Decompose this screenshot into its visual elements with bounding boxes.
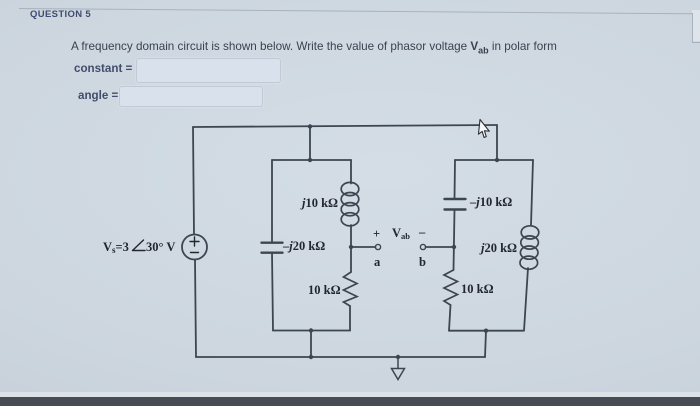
- wire: right block bottom edge: [449, 330, 523, 332]
- wire: top rail: [193, 125, 497, 127]
- resistor 10k right: [444, 270, 458, 305]
- bottom light strip: [0, 392, 700, 397]
- svg-text:b: b: [419, 255, 426, 269]
- capacitor -j10k: [445, 199, 466, 210]
- wire: middle right mid: [350, 225, 352, 272]
- right notch horizontal line: [692, 42, 700, 43]
- ground: [392, 357, 405, 380]
- wire: left branch upper: [193, 127, 194, 235]
- wire: right right upper: [531, 160, 533, 225]
- top horizontal rule: [19, 8, 692, 14]
- wire: stub right block to bottom rail: [485, 331, 486, 357]
- junction right top: [495, 158, 499, 162]
- wire: middle left lower: [272, 253, 273, 331]
- wire: right left upper: [454, 160, 457, 199]
- junction right bottom: [484, 329, 488, 333]
- input box constant: [136, 58, 281, 83]
- wire: middle right upper: [350, 160, 352, 184]
- svg-text:a: a: [374, 255, 381, 269]
- svg-text:–: –: [418, 225, 426, 239]
- capacitor -j20k: [262, 243, 283, 253]
- wire: right left lower: [449, 305, 451, 331]
- label angle: [78, 89, 118, 102]
- question text: [71, 40, 557, 55]
- wire: tap to node a: [351, 246, 376, 248]
- inductor j20k: [520, 226, 539, 270]
- label constant: [74, 62, 132, 75]
- junction bottom rail middle: [309, 355, 313, 359]
- junction node b tap: [452, 245, 456, 249]
- junction middle bottom: [309, 328, 313, 332]
- wire: left branch lower: [195, 260, 196, 358]
- wire: middle block bottom edge: [273, 330, 350, 332]
- svg-text:–j20 kΩ: –j20 kΩ: [282, 239, 325, 253]
- wire: stub middle block to bottom rail: [310, 331, 312, 358]
- svg-text:10 kΩ: 10 kΩ: [461, 282, 494, 296]
- header QUESTION 5: [30, 9, 91, 20]
- wire: node b to tap: [426, 246, 455, 248]
- svg-text:Vs=3: Vs=3: [103, 240, 129, 255]
- value label Vs = 3∠30° V: [103, 240, 175, 255]
- svg-text:–j10 kΩ: –j10 kΩ: [469, 195, 512, 209]
- junction ground: [396, 355, 400, 359]
- wire: right right lower: [524, 268, 528, 331]
- node b terminal: [420, 244, 425, 249]
- right notch panel: [692, 10, 700, 41]
- svg-text:j10 kΩ: j10 kΩ: [300, 196, 338, 210]
- wire: right block top edge: [455, 159, 533, 161]
- svg-text:Vab: Vab: [392, 226, 410, 241]
- junction on top rail: [308, 124, 312, 128]
- wire: right left mid: [454, 210, 455, 270]
- junction node a tap: [349, 245, 353, 249]
- wire: middle left upper: [271, 160, 273, 242]
- wire: stub top rail to middle block: [309, 127, 311, 161]
- wire: middle block top edge: [272, 159, 351, 161]
- svg-text:30° V: 30° V: [146, 240, 175, 254]
- svg-text:+: +: [373, 227, 380, 241]
- svg-text:j20 kΩ: j20 kΩ: [479, 241, 517, 255]
- node a terminal: [375, 244, 380, 249]
- wire: bottom rail: [196, 356, 485, 358]
- junction middle top: [308, 158, 312, 162]
- inductor j10k: [341, 182, 359, 226]
- voltage source Vs: [182, 235, 207, 260]
- mouse cursor: [478, 120, 490, 138]
- wire: top rail end stub to right block: [496, 125, 498, 160]
- bottom dark band: [0, 397, 700, 406]
- right notch vertical line: [692, 13, 693, 42]
- resistor 10k middle: [344, 272, 358, 306]
- svg-text:10 kΩ: 10 kΩ: [308, 283, 341, 297]
- wire: middle right lower: [349, 306, 351, 331]
- input box angle: [119, 86, 263, 107]
